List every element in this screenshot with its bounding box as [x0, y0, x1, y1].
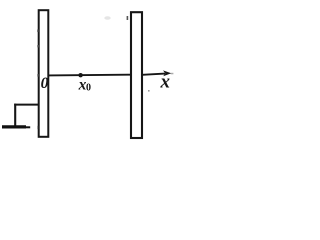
svg-text:0: 0 — [41, 75, 49, 92]
scan tick on plate P1 left edge (middle) — [37, 45, 38, 47]
scan speckle near top centre — [104, 16, 110, 20]
scan speckle on plate P2 left edge — [127, 16, 129, 20]
scan tick on plate P1 left edge (upper) — [37, 30, 38, 33]
wire (left plate to ground, horizontal segment) — [14, 104, 39, 106]
node x0 (dot on axis) — [78, 73, 82, 77]
svg-text:x: x — [160, 72, 171, 93]
label x0 (below dot) — [78, 76, 91, 93]
wire (ground lead, vertical segment) — [14, 104, 16, 127]
axis x (segment right of plate P2, with arrowhead) — [142, 70, 173, 76]
ground — [2, 125, 30, 129]
scan speckle right of plate P2 — [148, 90, 150, 92]
capacitor plate P1 (left, grounded) — [39, 10, 49, 137]
scan speckle on plate P1 left edge near bottom — [38, 126, 40, 129]
scan tick on plate P1 left edge (near axis) — [37, 74, 38, 77]
capacitor plate P2 (right) — [131, 12, 142, 138]
axis x (segment between plates) — [48, 74, 130, 77]
svg-text:0: 0 — [86, 83, 91, 94]
